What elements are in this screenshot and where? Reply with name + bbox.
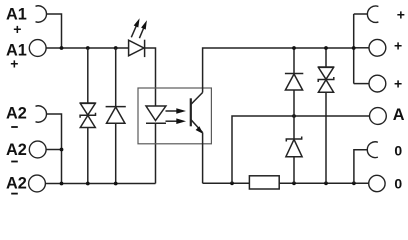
node junction at 115.7,183.5 <box>114 182 118 186</box>
node junction at 61.5,149.5 <box>60 148 64 152</box>
wire A2 mid <box>46 149 61 151</box>
LED emission arrow 2 <box>139 20 147 38</box>
svg-text:A2: A2 <box>6 141 27 159</box>
optocoupler U1 box <box>138 88 211 144</box>
terminal + circle 2 <box>369 75 386 92</box>
wire 0 rail left segment <box>203 182 250 184</box>
terminal 0 arc socket <box>367 142 378 158</box>
node junction at 87.8,183.5 <box>86 182 90 186</box>
svg-text:+: + <box>10 56 18 72</box>
svg-text:+: + <box>397 7 405 23</box>
label minus row3 <box>11 126 18 128</box>
svg-text:0: 0 <box>394 176 402 192</box>
svg-text:+: + <box>394 75 402 91</box>
node junction at 353.9,183.3 <box>352 181 356 185</box>
terminal + circle 1 <box>369 39 386 56</box>
node junction at 87.8,48 <box>86 46 90 50</box>
diode V3 (output freewheeling) <box>285 48 303 116</box>
terminal A2 pin 2 (circle) <box>29 141 46 158</box>
node junction at 294,183.3 <box>292 181 296 185</box>
terminal A2 pin 1 (arc socket) <box>36 106 47 122</box>
terminal + arc socket <box>367 6 378 22</box>
node junction at 353.7,48 <box>352 46 356 50</box>
wire emitter to A line <box>232 116 370 183</box>
suppressor diode V1 (bidirectional, input side) <box>80 48 96 184</box>
resistor R1 <box>249 176 279 189</box>
node junction at 294,116 <box>292 114 296 118</box>
svg-text:A: A <box>393 106 405 124</box>
wire collector to + bus <box>203 48 354 93</box>
svg-text:+: + <box>13 21 21 37</box>
LED emission arrow 1 <box>131 18 139 37</box>
wire A1 arc to top bus <box>47 14 62 48</box>
suppressor diode V5 (output side) <box>318 48 334 183</box>
label minus row4 <box>11 161 18 163</box>
terminal A1 pin 2 (circle) <box>29 40 46 57</box>
wire A2 arc to A2 bus <box>47 114 62 184</box>
opto light arrow 2 <box>166 118 187 124</box>
wire emitter down <box>202 133 204 184</box>
diode V2 (input reverse polarity) <box>106 48 126 184</box>
terminal A1 pin 1 (arc socket) <box>36 6 47 22</box>
node junction at 61.5,48 <box>60 46 64 50</box>
node junction at 294,48 <box>292 46 296 50</box>
terminal A2 pin 3 (circle) <box>29 175 46 192</box>
node junction at 232,183.3 <box>230 181 234 185</box>
svg-text:A2: A2 <box>6 105 27 123</box>
wire opto LED cathode down <box>155 123 157 183</box>
node junction at 326,183.3 <box>324 181 328 185</box>
wire 0 rail right segment <box>279 182 369 184</box>
node junction at 115.7,48 <box>114 46 118 50</box>
wire 0 arc branch <box>354 150 367 184</box>
wire right + bus <box>354 14 369 84</box>
node junction at 61.5,183.5 <box>60 182 64 186</box>
svg-text:0: 0 <box>394 142 402 158</box>
opto light arrow 1 <box>166 108 187 114</box>
terminal 0 circle <box>369 175 385 191</box>
node junction at 326,48 <box>324 46 328 50</box>
svg-text:A2: A2 <box>6 174 27 192</box>
svg-text:+: + <box>394 38 402 54</box>
terminal A circle <box>370 108 387 125</box>
label minus row5 <box>11 193 18 195</box>
wire LED cathode to optocoupler <box>145 48 156 106</box>
opto LED <box>146 106 166 123</box>
opto transistor Q1 <box>191 93 203 134</box>
zener diode V4 <box>286 116 302 183</box>
LED indicator D3 <box>129 40 145 57</box>
wire A2 bottom bus <box>45 183 155 185</box>
wire A1 top bus <box>46 47 129 49</box>
